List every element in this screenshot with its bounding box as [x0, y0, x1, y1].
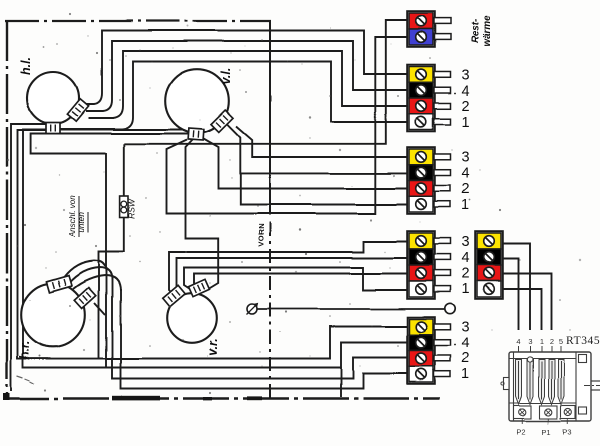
svg-text:1: 1 — [462, 198, 470, 214]
svg-text:h.r.: h.r. — [18, 341, 32, 360]
svg-text:v.r.: v.r. — [206, 338, 220, 355]
svg-text:P3: P3 — [562, 428, 571, 437]
svg-text:v.l.: v.l. — [219, 68, 233, 85]
svg-text:4: 4 — [516, 337, 520, 346]
svg-text:Anschl. von: Anschl. von — [68, 195, 77, 238]
svg-text:2: 2 — [462, 182, 470, 198]
svg-text:1: 1 — [462, 115, 470, 131]
svg-text:4: 4 — [462, 84, 470, 100]
svg-text:2: 2 — [549, 337, 553, 346]
svg-text:VORN: VORN — [257, 223, 266, 246]
svg-text:4: 4 — [462, 166, 470, 182]
svg-text:4: 4 — [462, 336, 470, 352]
svg-text:3: 3 — [462, 235, 470, 251]
svg-text:1: 1 — [539, 337, 543, 346]
svg-text:1: 1 — [462, 282, 470, 298]
svg-text:RT345: RT345 — [566, 335, 600, 347]
svg-text:4: 4 — [462, 251, 470, 267]
svg-text:RSW: RSW — [127, 198, 137, 219]
svg-text:P1: P1 — [541, 428, 550, 437]
svg-text:3: 3 — [462, 150, 470, 166]
svg-text:3: 3 — [462, 68, 470, 84]
svg-text:Rest-: Rest- — [470, 19, 481, 44]
svg-text:P2: P2 — [516, 428, 525, 437]
svg-text:h.l.: h.l. — [19, 57, 33, 75]
svg-text:5: 5 — [559, 337, 563, 346]
svg-text:2: 2 — [462, 351, 470, 367]
svg-text:1: 1 — [462, 367, 470, 383]
svg-text:2: 2 — [462, 99, 470, 115]
svg-text:unten: unten — [77, 211, 86, 232]
svg-text:3: 3 — [462, 320, 470, 336]
svg-text:3: 3 — [528, 337, 532, 346]
svg-text:wärme: wärme — [482, 15, 493, 47]
svg-text:2: 2 — [462, 266, 470, 282]
